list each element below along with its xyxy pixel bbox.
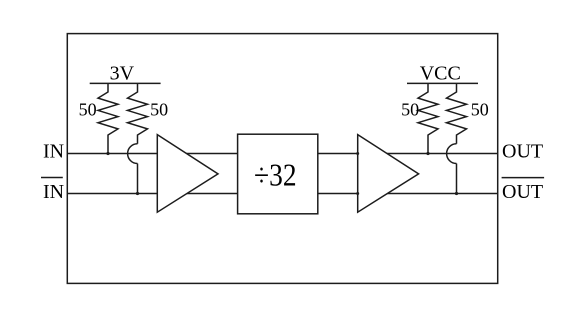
junction R4-OUTbar: [455, 192, 458, 195]
output buffer amplifier: [358, 135, 419, 213]
wire OUT top (divider to chip edge): [318, 153, 498, 155]
resistor R4 50 (right, hops to OUTbar line): [447, 83, 467, 143]
junction R3-OUT: [426, 152, 429, 155]
wire hop over IN line: [128, 144, 138, 164]
svg-text:50: 50: [471, 100, 489, 120]
node at output buffer input top: [356, 152, 359, 155]
svg-text:IN: IN: [43, 141, 64, 163]
input buffer amplifier: [157, 135, 218, 213]
svg-text:÷32: ÷32: [254, 156, 297, 192]
wire from hop to INbar line: [137, 164, 139, 194]
resistor R1 50 (left, to IN line): [98, 83, 118, 153]
svg-text:50: 50: [150, 100, 168, 120]
wire INbar bottom (chip edge to divider): [67, 193, 237, 195]
overline of INbar: [41, 177, 63, 179]
svg-text:OUT: OUT: [502, 141, 543, 163]
junction R2-INbar: [136, 192, 139, 195]
resistor R2 50 (right, hops to INbar line): [128, 83, 148, 143]
chip outline: [67, 34, 497, 284]
node at output buffer input bottom: [356, 192, 359, 195]
wire IN top (chip edge to divider): [67, 153, 237, 155]
resistor R3 50 (left, to OUT line): [418, 83, 438, 153]
supply rail VCC: [407, 82, 478, 84]
wire hop over OUT line: [447, 144, 457, 164]
svg-text:50: 50: [79, 100, 97, 120]
overline of OUTbar: [502, 177, 544, 179]
junction R1-IN: [106, 152, 109, 155]
svg-text:VCC: VCC: [420, 62, 461, 84]
wire OUTbar bottom (divider to chip edge): [318, 193, 498, 195]
divider block U1: [238, 134, 318, 214]
svg-text:IN: IN: [43, 181, 64, 203]
svg-text:50: 50: [401, 100, 419, 120]
wire from hop to OUTbar line: [456, 164, 458, 194]
svg-text:3V: 3V: [110, 62, 135, 84]
supply rail 3V: [90, 82, 161, 84]
svg-text:OUT: OUT: [502, 181, 543, 203]
